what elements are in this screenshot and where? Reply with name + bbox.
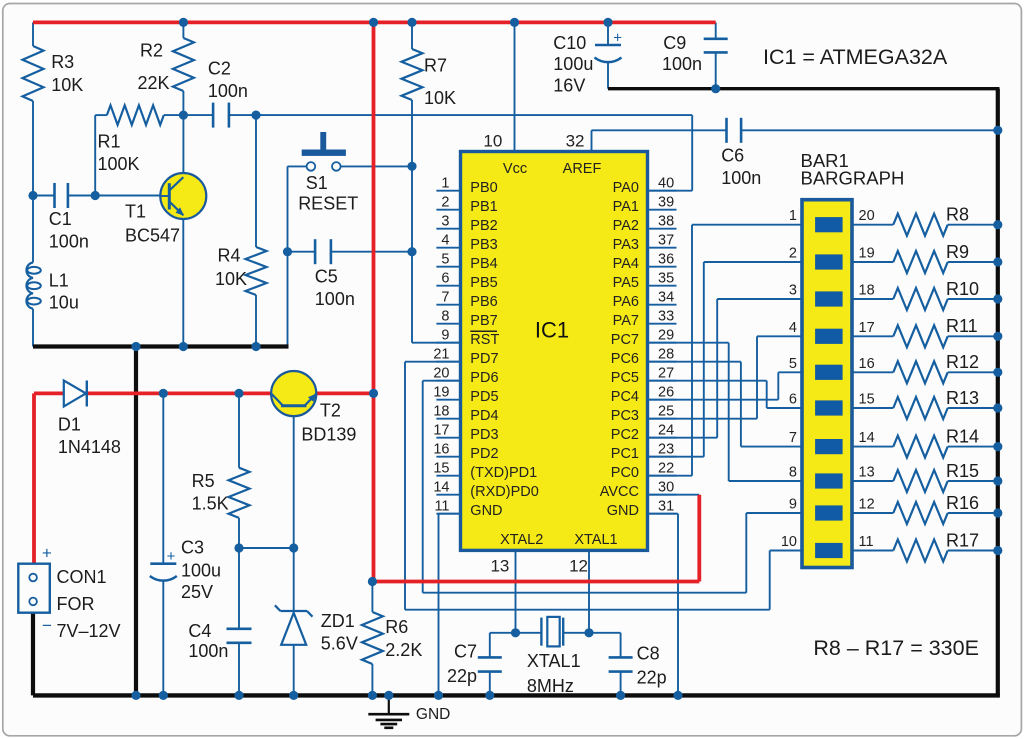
svg-text:10K: 10K [215, 269, 247, 289]
svg-text:T2: T2 [320, 400, 341, 420]
svg-text:100n: 100n [315, 289, 355, 309]
svg-text:29: 29 [658, 328, 674, 344]
svg-text:R1: R1 [98, 132, 121, 152]
svg-text:−: − [42, 616, 52, 635]
svg-text:10K: 10K [424, 88, 456, 108]
svg-text:6: 6 [789, 392, 797, 408]
svg-text:24: 24 [658, 423, 674, 439]
svg-text:PD2: PD2 [470, 446, 498, 462]
svg-text:1N4148: 1N4148 [58, 437, 121, 457]
svg-text:PA6: PA6 [613, 294, 639, 310]
svg-text:+: + [42, 544, 52, 563]
svg-text:C8: C8 [637, 643, 660, 663]
svg-text:C5: C5 [315, 267, 338, 287]
svg-text:R11: R11 [946, 316, 978, 336]
svg-text:IC1 = ATMEGA32A: IC1 = ATMEGA32A [763, 45, 948, 69]
svg-text:25: 25 [658, 404, 674, 420]
svg-text:(RXD)PD0: (RXD)PD0 [470, 484, 538, 500]
svg-text:C2: C2 [208, 59, 231, 79]
svg-text:RST: RST [470, 332, 499, 348]
svg-text:6: 6 [441, 271, 449, 287]
svg-text:R15: R15 [946, 461, 979, 481]
svg-text:R10: R10 [946, 279, 979, 299]
svg-text:100n: 100n [721, 168, 761, 188]
svg-text:31: 31 [658, 499, 674, 515]
svg-text:13: 13 [490, 557, 509, 576]
svg-text:19: 19 [859, 246, 875, 262]
svg-text:18: 18 [859, 283, 875, 299]
svg-text:PD3: PD3 [470, 427, 498, 443]
svg-text:15: 15 [859, 392, 875, 408]
svg-text:C4: C4 [188, 621, 211, 641]
svg-text:PC4: PC4 [611, 389, 639, 405]
svg-text:PA5: PA5 [613, 275, 639, 291]
svg-text:16V: 16V [553, 75, 585, 95]
svg-text:PA3: PA3 [613, 237, 639, 253]
svg-text:PD7: PD7 [470, 351, 498, 367]
svg-text:38: 38 [658, 214, 674, 230]
svg-text:C3: C3 [181, 538, 204, 558]
svg-text:R8 – R17 = 330E: R8 – R17 = 330E [813, 636, 979, 660]
svg-text:30: 30 [658, 480, 674, 496]
svg-text:23: 23 [658, 442, 674, 458]
svg-text:GND: GND [470, 503, 502, 519]
svg-text:C6: C6 [721, 146, 744, 166]
svg-text:XTAL2: XTAL2 [500, 532, 543, 548]
svg-text:14: 14 [859, 430, 875, 446]
svg-text:26: 26 [658, 385, 674, 401]
svg-text:34: 34 [658, 290, 674, 306]
svg-text:R4: R4 [218, 245, 241, 265]
svg-text:32: 32 [566, 131, 585, 150]
svg-text:3: 3 [789, 283, 797, 299]
svg-text:PB2: PB2 [470, 218, 497, 234]
svg-text:4: 4 [789, 320, 797, 336]
svg-text:33: 33 [658, 309, 674, 325]
svg-text:L1: L1 [49, 270, 69, 290]
svg-text:R17: R17 [946, 530, 979, 550]
svg-text:13: 13 [859, 465, 875, 481]
svg-text:10K: 10K [51, 75, 83, 95]
svg-text:7: 7 [441, 290, 449, 306]
svg-text:C7: C7 [454, 642, 477, 662]
svg-text:16: 16 [859, 356, 875, 372]
svg-text:22p: 22p [447, 666, 477, 686]
svg-text:1: 1 [441, 176, 449, 192]
svg-text:T1: T1 [125, 202, 146, 222]
svg-text:PB0: PB0 [470, 180, 497, 196]
svg-text:17: 17 [859, 320, 875, 336]
svg-text:40: 40 [658, 176, 674, 192]
svg-text:AREF: AREF [563, 161, 602, 177]
svg-text:+: + [167, 548, 176, 565]
svg-text:100n: 100n [49, 231, 89, 251]
svg-text:37: 37 [658, 233, 674, 249]
svg-text:R7: R7 [424, 55, 447, 75]
svg-text:R12: R12 [946, 352, 979, 372]
svg-text:(TXD)PD1: (TXD)PD1 [470, 465, 537, 481]
svg-text:R16: R16 [946, 493, 979, 513]
svg-text:27: 27 [658, 366, 674, 382]
svg-text:17: 17 [433, 423, 449, 439]
svg-text:PD5: PD5 [470, 389, 498, 405]
svg-text:20: 20 [433, 366, 449, 382]
svg-text:PB1: PB1 [470, 199, 497, 215]
svg-text:PC3: PC3 [611, 408, 639, 424]
svg-text:8MHz: 8MHz [527, 676, 574, 696]
svg-text:ZD1: ZD1 [321, 611, 355, 631]
svg-text:36: 36 [658, 252, 674, 268]
svg-text:IC1: IC1 [535, 318, 569, 343]
svg-text:XTAL1: XTAL1 [574, 532, 617, 548]
svg-text:10: 10 [483, 131, 502, 150]
svg-text:22p: 22p [637, 667, 667, 687]
svg-text:R14: R14 [946, 426, 979, 446]
svg-text:100u: 100u [181, 560, 221, 580]
svg-text:3: 3 [441, 214, 449, 230]
svg-text:10u: 10u [49, 293, 79, 313]
svg-text:28: 28 [658, 347, 674, 363]
svg-text:AVCC: AVCC [600, 484, 639, 500]
svg-text:R2: R2 [140, 40, 163, 60]
svg-text:11: 11 [859, 534, 874, 550]
svg-text:100u: 100u [553, 54, 593, 74]
svg-text:11: 11 [434, 499, 449, 515]
svg-text:21: 21 [433, 347, 449, 363]
svg-text:R6: R6 [385, 617, 408, 637]
svg-text:Vcc: Vcc [503, 161, 527, 177]
svg-text:22: 22 [658, 461, 674, 477]
svg-text:22K: 22K [138, 73, 170, 93]
svg-text:FOR: FOR [57, 594, 95, 614]
svg-text:8: 8 [789, 465, 797, 481]
svg-text:18: 18 [433, 404, 449, 420]
svg-text:BC547: BC547 [125, 225, 180, 245]
svg-text:PC6: PC6 [611, 351, 639, 367]
svg-text:5: 5 [789, 356, 797, 372]
svg-text:35: 35 [658, 271, 674, 287]
svg-text:1: 1 [789, 208, 797, 224]
svg-text:PB7: PB7 [470, 313, 497, 329]
svg-text:PC1: PC1 [611, 446, 639, 462]
svg-text:PB4: PB4 [470, 256, 497, 272]
svg-text:12: 12 [859, 497, 875, 513]
svg-text:BARGRAPH: BARGRAPH [801, 168, 905, 189]
svg-text:14: 14 [433, 480, 449, 496]
svg-text:PA7: PA7 [613, 313, 639, 329]
svg-text:PD6: PD6 [470, 370, 498, 386]
svg-text:100n: 100n [188, 641, 228, 661]
svg-text:9: 9 [789, 497, 797, 513]
svg-text:C1: C1 [49, 209, 72, 229]
svg-text:C10: C10 [553, 33, 586, 53]
svg-text:2: 2 [441, 195, 449, 211]
svg-text:XTAL1: XTAL1 [527, 651, 581, 671]
svg-text:CON1: CON1 [57, 567, 107, 587]
svg-text:7: 7 [789, 430, 797, 446]
svg-text:PB6: PB6 [470, 294, 497, 310]
svg-text:PA1: PA1 [613, 199, 639, 215]
svg-text:PD4: PD4 [470, 408, 498, 424]
svg-text:12: 12 [569, 557, 588, 576]
svg-text:PA0: PA0 [613, 180, 639, 196]
svg-text:R5: R5 [192, 471, 215, 491]
svg-text:PC2: PC2 [611, 427, 639, 443]
svg-text:PA4: PA4 [613, 256, 639, 272]
svg-text:GND: GND [416, 706, 450, 723]
svg-text:2: 2 [789, 246, 797, 262]
svg-text:PB5: PB5 [470, 275, 497, 291]
svg-text:2.2K: 2.2K [385, 640, 422, 660]
svg-text:PC0: PC0 [611, 465, 639, 481]
svg-text:100n: 100n [662, 54, 702, 74]
svg-text:BD139: BD139 [301, 425, 356, 445]
svg-text:25V: 25V [181, 582, 213, 602]
svg-text:10: 10 [781, 534, 797, 550]
svg-text:5: 5 [441, 252, 449, 268]
svg-text:R9: R9 [946, 242, 969, 262]
svg-text:100n: 100n [208, 81, 248, 101]
svg-text:R8: R8 [946, 205, 969, 225]
svg-text:PC7: PC7 [611, 332, 639, 348]
svg-text:RESET: RESET [298, 194, 358, 214]
svg-text:+: + [613, 30, 622, 47]
svg-text:7V–12V: 7V–12V [57, 621, 121, 641]
svg-text:PC5: PC5 [611, 370, 639, 386]
svg-text:100K: 100K [98, 154, 140, 174]
svg-text:4: 4 [441, 233, 449, 249]
svg-text:R13: R13 [946, 388, 979, 408]
svg-text:R3: R3 [51, 52, 74, 72]
svg-text:20: 20 [859, 208, 875, 224]
svg-text:1.5K: 1.5K [192, 494, 229, 514]
svg-text:39: 39 [658, 195, 674, 211]
svg-text:D1: D1 [58, 414, 81, 434]
svg-text:9: 9 [441, 328, 449, 344]
svg-text:19: 19 [433, 385, 449, 401]
svg-text:S1: S1 [306, 173, 328, 193]
svg-text:16: 16 [433, 442, 449, 458]
svg-text:8: 8 [441, 309, 449, 325]
svg-text:C9: C9 [663, 33, 686, 53]
svg-text:5.6V: 5.6V [321, 634, 358, 654]
svg-text:PA2: PA2 [613, 218, 639, 234]
svg-text:PB3: PB3 [470, 237, 497, 253]
svg-text:GND: GND [607, 503, 639, 519]
svg-text:15: 15 [433, 461, 449, 477]
